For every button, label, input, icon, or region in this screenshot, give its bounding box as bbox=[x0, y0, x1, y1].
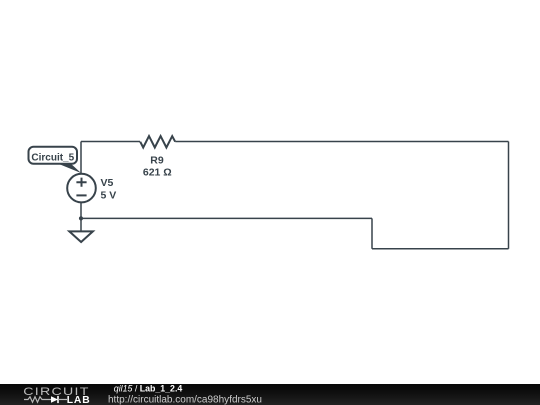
logo diode bbox=[51, 396, 58, 403]
wire bottom-left bbox=[81, 217, 372, 219]
svg-text:http://circuitlab.com/ca98hyfd: http://circuitlab.com/ca98hyfdrs5xu bbox=[108, 394, 262, 405]
svg-text:qil15 / Lab_1_2.4: qil15 / Lab_1_2.4 bbox=[114, 384, 183, 394]
ground bbox=[69, 231, 93, 242]
footer bar bbox=[0, 384, 540, 405]
svg-text:LAB: LAB bbox=[67, 395, 91, 405]
wire top-left bbox=[81, 141, 140, 143]
wire bottom-right bbox=[372, 248, 509, 250]
voltage source V5 bbox=[67, 174, 96, 203]
wire step bbox=[371, 218, 373, 248]
wire source-bottom bbox=[80, 202, 82, 231]
node label Circuit_5 tail bbox=[54, 162, 81, 173]
wire top-right bbox=[175, 141, 508, 143]
node label Circuit_5 box bbox=[29, 147, 78, 164]
wire source-top bbox=[80, 142, 82, 175]
wire right-side bbox=[508, 142, 510, 249]
logo resistor zigzag bbox=[24, 397, 51, 402]
resistor R9 bbox=[140, 136, 175, 147]
junction dot bbox=[79, 216, 83, 220]
